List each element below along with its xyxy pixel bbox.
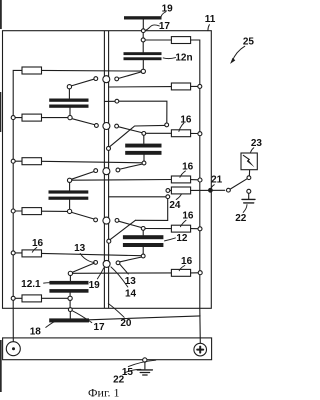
leader 24 [176, 194, 181, 199]
actuator rod 20 (double line) [104, 31, 108, 308]
leader 22 bottom [124, 369, 141, 373]
svg-text:17: 17 [159, 21, 171, 32]
junction on bottom rail [68, 308, 72, 312]
wire node C2-top down to capacitor C2 [69, 183, 71, 191]
svg-text:21: 21 [211, 175, 223, 186]
node C2-bottom [67, 209, 71, 213]
svg-text:22: 22 [235, 213, 247, 224]
wire bus to resistor R-left-3 [15, 160, 22, 162]
node 12.1-bottom [68, 296, 72, 300]
ground contact 22 right [247, 189, 251, 193]
resistor R-right-2 [171, 130, 190, 137]
pole S5 on rod [103, 260, 110, 267]
leader 23 [251, 148, 254, 153]
wire resistor R-right-3 to right bus [191, 179, 198, 181]
capacitor C2 [49, 190, 89, 199]
svg-text:22: 22 [113, 374, 125, 385]
svg-text:Фиг. 1: Фиг. 1 [88, 386, 119, 400]
base plate 15 [3, 338, 212, 360]
pole S3 on rod [103, 168, 110, 175]
leader 12n [163, 58, 175, 59]
switch blade S5 left [72, 263, 93, 272]
wire resistor R-left-5 to node cap12-bottom [42, 253, 141, 255]
rod node cell1 [107, 146, 111, 150]
electrode 19 (top bar) [124, 16, 162, 19]
wire rod to resistor R-right-1 [109, 86, 172, 88]
node right bus row2 [198, 132, 202, 136]
node C2-top [67, 178, 71, 182]
rod node cell3 [107, 239, 111, 243]
wire node to capacitor C1 [68, 89, 70, 98]
resistor R-left-1 [22, 67, 42, 74]
row wire node C2-top to resistor R-right-3 [72, 179, 171, 182]
node capB-top [142, 132, 146, 136]
resistor R-left-2 [22, 114, 42, 121]
wire contact to rod [105, 100, 115, 102]
wire electrode 18 to plate terminal lead [89, 316, 200, 320]
svg-text:18: 18 [30, 326, 42, 337]
node capB-bottom [142, 161, 146, 165]
wire node cap12-top to resistor R-right-4 [145, 228, 171, 230]
svg-text:20: 20 [120, 318, 132, 329]
capacitor C1 [49, 99, 88, 108]
riser wire cell1 [119, 101, 167, 123]
wire node A down to capacitor 12n [142, 42, 144, 52]
contact S2 right [115, 124, 119, 128]
wire bus to resistor R-left-4 [15, 210, 22, 212]
contact cell1 at rod [115, 99, 119, 103]
contact S4 left [94, 218, 98, 222]
leader 19 middle [97, 268, 103, 279]
wire capacitor C2 to node C2-bottom [69, 200, 71, 209]
leader 16 right4 [180, 220, 186, 227]
leader 16 right5 [179, 266, 185, 271]
svg-text:14: 14 [125, 289, 137, 300]
resistor R0 [171, 37, 190, 44]
enclosure box 11 [3, 31, 212, 309]
resistor R-left-6 [22, 295, 42, 302]
switch blade S1 left [71, 79, 94, 86]
right bus wire [191, 40, 201, 343]
svg-text:13: 13 [125, 276, 137, 287]
junction dot 21 [208, 188, 213, 193]
terminal left (circle with dot) [6, 342, 20, 356]
svg-text:23: 23 [251, 138, 263, 149]
wire bus to resistor R-left-6 [15, 297, 22, 299]
svg-text:12n: 12n [175, 53, 192, 64]
svg-text:24: 24 [169, 200, 181, 211]
leader 12 [165, 238, 176, 241]
node 12.1-top [68, 271, 72, 275]
leader 16 right2 [179, 123, 184, 131]
contact S3 left [94, 169, 98, 173]
svg-text:19: 19 [162, 4, 174, 15]
contact cell3 upper [166, 189, 170, 193]
contact S2 left [95, 124, 99, 128]
wire node capB-top down to capacitor [143, 136, 145, 144]
wire node 12.1-top down to capacitor 12.1 [69, 276, 71, 281]
svg-text:12: 12 [176, 233, 188, 244]
contact S1 left [94, 77, 98, 81]
ground 22 right [242, 193, 255, 203]
node C1-top [67, 85, 71, 89]
scan edge artifact top-left [0, 0, 2, 392]
row wire node 12.1-top to resistor R-right-5 [73, 272, 172, 274]
leader 17 bottom [73, 311, 92, 323]
contact cell3 lower [166, 195, 170, 199]
switch blade S2 right [119, 127, 142, 133]
svg-text:16: 16 [180, 115, 192, 126]
switch blade cell1 [109, 125, 164, 146]
svg-text:19: 19 [89, 280, 101, 291]
switch blade S4 left [72, 212, 94, 219]
arrow inside box 23 [243, 155, 254, 167]
node right bus row5 [198, 271, 202, 275]
wire resistor R-left-6 to node 12.1-bottom [42, 297, 68, 299]
svg-text:16: 16 [32, 238, 44, 249]
switch blade S5 right [120, 257, 141, 262]
leader 18 [46, 321, 55, 327]
switch blade cell3 [110, 220, 136, 240]
node cap12-bottom [141, 254, 145, 258]
switch blade S3 right [120, 164, 142, 169]
wire resistor R-right-1 to right bus [191, 85, 198, 87]
svg-text:16: 16 [182, 162, 194, 173]
node A (top of C 12n) [141, 38, 145, 42]
pole S4 on rod [103, 217, 110, 224]
wire capacitor 12.1 to node 12.1-bottom [69, 293, 71, 296]
svg-text:11: 11 [205, 14, 216, 25]
node right bus row1 [198, 84, 202, 88]
left bus wire [13, 70, 22, 341]
leader 16 right3 [180, 171, 186, 177]
contact cell1 at riser [165, 123, 169, 127]
wire rod to contact cell3 [109, 196, 166, 198]
wire resistor R-left-2 to node C1-bottom [42, 117, 68, 119]
leader 14 [111, 267, 128, 287]
svg-text:12.1: 12.1 [21, 279, 41, 290]
contact S3 right [116, 168, 120, 172]
wire node capB-top to resistor R-right-2 [146, 132, 171, 134]
resistor R-left-1 row wire [42, 69, 141, 72]
contact S5 left [94, 261, 98, 265]
instrument box 23 [241, 153, 257, 170]
leader 13 first [80, 254, 94, 263]
leader 17 top [146, 25, 160, 30]
pole S1 on rod [103, 76, 110, 83]
resistor R-right-3 [171, 176, 190, 183]
leader 20 [108, 304, 124, 318]
capacitor 12.1 [49, 281, 88, 293]
resistor R-left-5 [22, 250, 42, 257]
electrode 18 (bottom bar) [49, 318, 89, 322]
switch blade S2 left [72, 119, 94, 125]
node right bus row4 [198, 227, 202, 231]
resistor R-left-3 [22, 158, 42, 165]
node on left bus row3 [11, 159, 15, 163]
wire rail node to node A [142, 33, 144, 38]
leader 16 left [32, 247, 37, 252]
node right bus row3 [198, 178, 202, 182]
svg-text:13: 13 [74, 243, 86, 254]
node on left bus row2 [11, 116, 15, 120]
wire resistor R-right-5 to right bus [191, 272, 199, 274]
wire resistor R-left-4 to node C2-bottom [42, 210, 68, 212]
L-run wire cell3 [135, 199, 167, 221]
svg-text:17: 17 [93, 322, 105, 333]
wire electrode 19 to top rail [142, 20, 144, 29]
wire node A to resistor R0 [145, 39, 171, 41]
wire capacitor 12n to node B [142, 60, 144, 69]
capacitor CB [125, 144, 161, 155]
resistor R-right-5 [171, 269, 190, 276]
node cap12-top [141, 227, 145, 231]
leader 22 right [243, 205, 247, 213]
capacitor 12 [123, 235, 163, 247]
leader 12.1 [44, 282, 50, 284]
resistor R-right-4 [171, 225, 190, 232]
leader 11 [208, 25, 210, 31]
wire node cap12-top down to capacitor 12 [142, 231, 144, 236]
wire resistor R-right-4 to right bus [191, 228, 198, 230]
leader 15 [128, 360, 156, 366]
wire contact to instrument 23 [248, 170, 250, 175]
contact switch 23 left [227, 188, 231, 192]
leader 19 top [161, 12, 166, 17]
wire capacitor 12 to node cap12-bottom [142, 247, 144, 254]
wire node 12.1-bottom to bottom rail [69, 301, 71, 308]
switch blade 23 [230, 179, 247, 189]
node on top rail [141, 29, 145, 33]
wire bus to resistor R-left-2 [15, 117, 22, 119]
svg-text:16: 16 [182, 210, 194, 221]
pole S2 on rod [103, 123, 110, 130]
ground node on plate [143, 358, 147, 362]
svg-text:25: 25 [243, 37, 255, 48]
switch blade S3 left [72, 172, 94, 180]
contact S4 right [115, 219, 119, 223]
contact S1 right [115, 77, 119, 81]
contact S5 right [116, 261, 120, 265]
leader 21 [211, 185, 215, 189]
svg-text:16: 16 [181, 256, 193, 267]
resistor R-left-4 [22, 208, 42, 215]
resistor R-right-1 [171, 83, 190, 90]
capacitor 12n [124, 52, 162, 60]
node on left bus row5 [11, 251, 15, 255]
switch blade S4 right [119, 221, 141, 227]
wire contact cell3 upper to resistor 24 [170, 189, 171, 191]
wire resistor R-left-3 to node capB-bottom [42, 161, 142, 163]
wire resistor R-right-2 to right bus [191, 132, 198, 134]
wire junction to electrode 18 [69, 312, 71, 319]
leader 13 second [120, 265, 128, 275]
resistor 24 [171, 187, 190, 194]
node on left bus row4 [11, 209, 15, 213]
wire bus to resistor R-left-5 [15, 252, 22, 254]
node on left bus row6 [11, 296, 15, 300]
node C1-bottom [68, 115, 72, 119]
wire resistor 24 to junction 21 [191, 189, 225, 191]
ground 22 bottom [137, 362, 152, 375]
contact switch 23 upper [247, 176, 251, 180]
leaders [32, 12, 254, 373]
wire capacitor CB to node capB-bottom [143, 155, 145, 161]
switch blade S1 right [119, 72, 142, 79]
wire capacitor C1 to node C1-bottom [69, 108, 71, 116]
node B (below C 12n) [141, 69, 145, 73]
terminal right (circle with cross) [194, 343, 207, 356]
leader arrow 25 [230, 46, 245, 64]
